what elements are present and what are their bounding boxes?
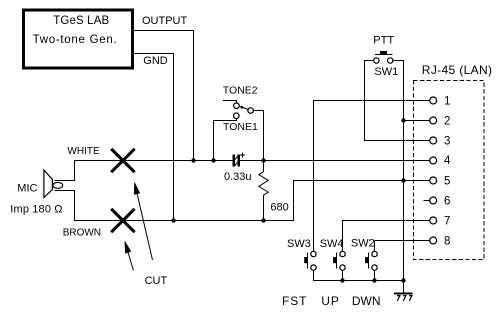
svg-text:SW2: SW2 — [351, 238, 375, 250]
svg-text:1: 1 — [444, 95, 450, 107]
svg-text:0.33u: 0.33u — [224, 171, 252, 183]
svg-text:6: 6 — [444, 195, 450, 207]
svg-text:2: 2 — [444, 115, 450, 127]
svg-text:TGeS LAB: TGeS LAB — [53, 15, 109, 27]
svg-text:8: 8 — [444, 235, 450, 247]
svg-text:GND: GND — [143, 55, 168, 67]
svg-text:CUT: CUT — [145, 275, 168, 287]
svg-text:Two-tone Gen.: Two-tone Gen. — [33, 34, 118, 46]
svg-text:PTT: PTT — [373, 35, 394, 47]
svg-text:SW3: SW3 — [287, 238, 311, 250]
svg-text:RJ-45 (LAN): RJ-45 (LAN) — [422, 63, 493, 77]
svg-text:WHITE: WHITE — [67, 146, 100, 157]
svg-text:OUTPUT: OUTPUT — [142, 15, 188, 27]
svg-text:7: 7 — [444, 215, 450, 227]
svg-text:MIC: MIC — [17, 183, 37, 195]
svg-text:SW4: SW4 — [320, 238, 344, 250]
svg-text:3: 3 — [444, 136, 450, 148]
svg-text:SW1: SW1 — [374, 66, 398, 78]
svg-text:DWN: DWN — [352, 294, 381, 308]
svg-text:UP: UP — [321, 294, 339, 308]
svg-text:TONE2: TONE2 — [223, 85, 258, 97]
svg-text:TONE1: TONE1 — [223, 121, 258, 133]
svg-text:BROWN: BROWN — [63, 227, 101, 238]
svg-text:Imp 180 Ω: Imp 180 Ω — [10, 204, 62, 216]
svg-text:FST: FST — [282, 294, 307, 308]
svg-text:4: 4 — [444, 155, 451, 167]
svg-text:680: 680 — [270, 202, 288, 214]
svg-text:5: 5 — [444, 175, 450, 187]
